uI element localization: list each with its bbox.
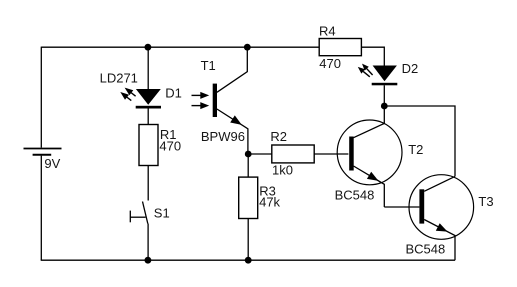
node junction dot top rail at D1 branch bbox=[145, 44, 152, 51]
LED D1 emission arrow 2 bbox=[120, 92, 131, 101]
LED D2 emission arrow 2 bbox=[358, 67, 370, 77]
node junction dot bottom rail at R3 branch bbox=[245, 257, 252, 264]
svg-text:S1: S1 bbox=[154, 205, 170, 220]
wire D1 to R1 bbox=[147, 109, 149, 125]
node junction dot D2 cathode / T2 collector bbox=[381, 103, 388, 110]
wire T2 emitter to T3 base bbox=[384, 206, 419, 208]
svg-text:T3: T3 bbox=[478, 194, 493, 209]
wire R2 to T2 base bbox=[314, 153, 348, 155]
battery BAT 9V plate short bbox=[33, 154, 52, 156]
wire D2 cathode to junction bbox=[383, 85, 385, 106]
svg-text:R2: R2 bbox=[270, 129, 287, 144]
svg-text:470: 470 bbox=[319, 56, 341, 71]
wire S1 to bottom rail bbox=[147, 224, 149, 261]
switch S1 blade bbox=[143, 202, 148, 224]
transistor T2 circle bbox=[337, 120, 402, 185]
svg-text:9V: 9V bbox=[44, 156, 60, 171]
phototransistor T1 light arrow 2 bbox=[192, 102, 210, 109]
resistor R4 body bbox=[319, 39, 361, 56]
svg-text:BC548: BC548 bbox=[406, 241, 446, 256]
LED D2 cathode bar bbox=[372, 83, 398, 86]
transistor T3 base bar bbox=[419, 189, 424, 223]
transistor T2 collector wire bbox=[354, 106, 385, 138]
wire left rail lower bbox=[40, 156, 42, 261]
phototransistor T1 collector wire bbox=[217, 47, 247, 92]
svg-text:D1: D1 bbox=[165, 85, 182, 100]
phototransistor T1 emitter wire with arrow bbox=[217, 109, 248, 154]
svg-text:1k0: 1k0 bbox=[272, 163, 293, 178]
wire R3 to bottom rail bbox=[247, 219, 249, 261]
wire top rail (V+) bbox=[41, 46, 319, 48]
transistor T3 collector wire bbox=[424, 176, 455, 191]
LED D2 triangle bbox=[373, 66, 397, 82]
svg-text:T2: T2 bbox=[408, 142, 423, 157]
transistor T3 circle bbox=[409, 175, 474, 240]
battery BAT 9V plate long bbox=[24, 148, 62, 150]
resistor R1 body bbox=[139, 125, 158, 166]
LED D2 emission arrow 1 bbox=[362, 64, 373, 75]
wire R1 to switch S1 bbox=[147, 165, 149, 200]
svg-text:BC548: BC548 bbox=[335, 188, 375, 203]
wire top rail right segment R4 to D2 bbox=[361, 47, 384, 65]
transistor T2 base bar bbox=[349, 137, 354, 171]
svg-text:47k: 47k bbox=[259, 195, 280, 210]
node junction dot bottom rail at S1 branch bbox=[145, 257, 152, 264]
wire junction to right rail bbox=[384, 106, 455, 176]
switch S1 actuator cap bbox=[129, 211, 131, 223]
svg-text:D2: D2 bbox=[402, 61, 419, 76]
phototransistor T1 light arrow 1 bbox=[192, 92, 210, 99]
transistor T3 emitter wire with arrow bbox=[424, 220, 455, 261]
resistor R2 body bbox=[272, 145, 314, 163]
wire bottom rail (0V) bbox=[41, 259, 455, 261]
LED D1 emission arrow 1 bbox=[125, 88, 136, 97]
svg-text:LD271: LD271 bbox=[100, 71, 138, 86]
wire junction to R3 bbox=[247, 154, 249, 177]
svg-text:470: 470 bbox=[159, 139, 181, 154]
wire D1 anode from top rail bbox=[147, 47, 149, 89]
LED D1 triangle bbox=[136, 89, 161, 105]
svg-text:BPW96: BPW96 bbox=[201, 129, 245, 144]
svg-text:R4: R4 bbox=[319, 24, 336, 39]
wire junction to R2 bbox=[248, 153, 272, 155]
transistor T2 emitter wire with arrow bbox=[354, 166, 385, 207]
wire left rail bbox=[40, 47, 42, 148]
svg-text:T1: T1 bbox=[201, 58, 216, 73]
resistor R3 body bbox=[239, 177, 258, 218]
switch S1 actuator stem bbox=[130, 216, 145, 218]
node junction dot top rail at T1 branch bbox=[244, 44, 251, 51]
node junction dot T1 emitter / R2 / R3 bbox=[245, 151, 252, 158]
LED D1 cathode bar bbox=[136, 106, 161, 109]
phototransistor T1 base bar bbox=[213, 84, 217, 117]
